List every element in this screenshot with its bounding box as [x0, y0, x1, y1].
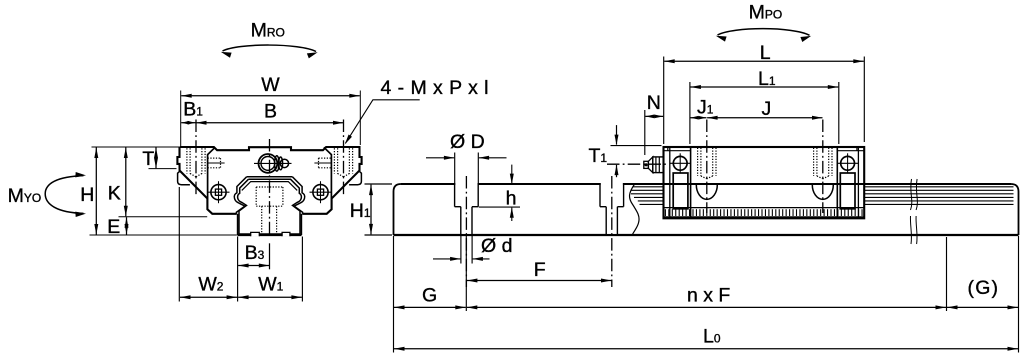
svg-text:n x F: n x F: [687, 284, 730, 306]
svg-text:W: W: [261, 74, 280, 96]
svg-text:H: H: [80, 184, 94, 206]
svg-text:L: L: [760, 42, 771, 64]
svg-text:(G): (G): [968, 277, 1000, 299]
svg-text:J: J: [762, 98, 772, 120]
svg-text:G: G: [422, 284, 437, 306]
svg-text:Ø d: Ø d: [481, 235, 512, 257]
svg-text:F: F: [534, 259, 546, 281]
svg-text:B: B: [264, 101, 277, 123]
svg-text:T: T: [142, 148, 154, 170]
svg-text:K: K: [108, 183, 121, 205]
svg-text:Ø D: Ø D: [450, 131, 485, 153]
svg-text:E: E: [107, 216, 120, 238]
svg-text:4 - M x P x l: 4 - M x P x l: [381, 77, 489, 99]
svg-text:N: N: [647, 92, 661, 114]
svg-text:h: h: [506, 188, 517, 210]
